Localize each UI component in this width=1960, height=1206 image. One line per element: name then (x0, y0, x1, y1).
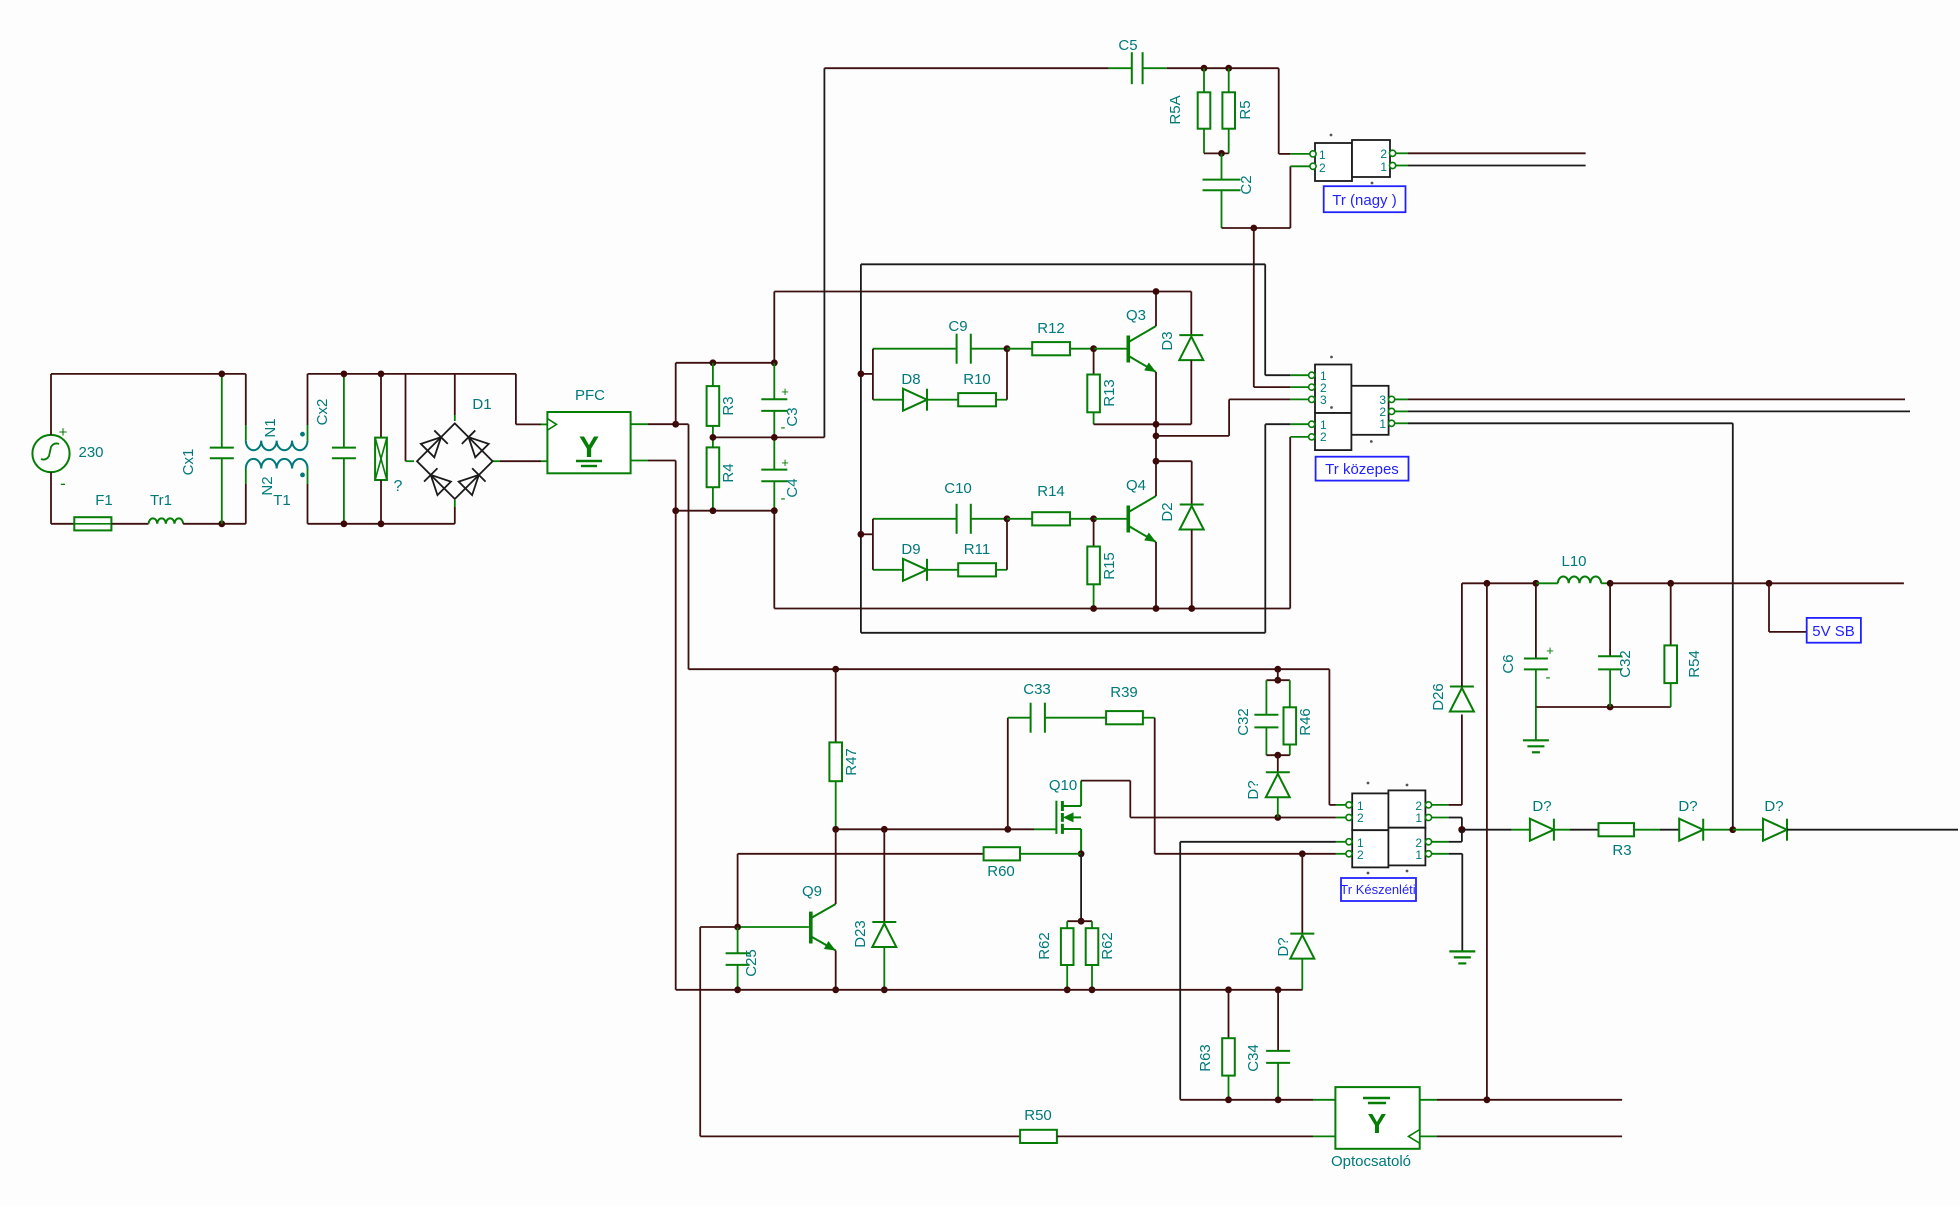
capacitor C4 (773, 437, 775, 469)
junction R47 top (832, 666, 839, 673)
junction Cx1 bottom (218, 520, 225, 527)
wire Q4 collector up (1155, 461, 1157, 496)
resistor R4 (712, 437, 714, 447)
wire HV+ up to bridge rail (773, 292, 775, 363)
capacitor C10 (873, 518, 957, 520)
wire jog to standby feed (676, 423, 689, 425)
ground Tr Keszenleti (1449, 950, 1475, 952)
transistor Q10 MOSFET (1055, 801, 1057, 834)
junction opto supply (1484, 1096, 1491, 1103)
wire HV- to bridge bottom rail (773, 511, 775, 609)
diode D3 (1190, 292, 1192, 336)
junction Q9 emitter (832, 986, 839, 993)
diode D? out3 (1763, 819, 1787, 841)
wire standby bottom rail (676, 989, 1303, 991)
junction C34 top (1275, 986, 1282, 993)
junction C9 R10 R12 (1004, 345, 1011, 352)
wire bottom row (676, 510, 775, 512)
wire Tr kozepes sec1 (1408, 422, 1733, 424)
svg-text:5V SB: 5V SB (1812, 623, 1855, 640)
wire to pin1 lower (1265, 423, 1290, 425)
junction C34 bottom (1275, 1096, 1282, 1103)
svg-text:R5A: R5A (1167, 95, 1184, 124)
wire Q9 collector up (835, 829, 837, 904)
svg-text:R47: R47 (843, 748, 860, 776)
wire HV- down (675, 461, 677, 511)
wire standby rail (689, 668, 1330, 670)
transformer T1 winding N1 (245, 374, 247, 425)
transformer Tr Keszenleti (1352, 793, 1388, 830)
junction D? anode drain row (1274, 814, 1281, 821)
svg-text:F1: F1 (95, 492, 113, 509)
junction R62b bottom (1089, 986, 1096, 993)
resistor R39 (1106, 711, 1143, 724)
inductor Tr1 (149, 518, 184, 523)
svg-text:D?: D? (1764, 798, 1783, 815)
diode D8 (873, 399, 903, 401)
junction C2 row (1250, 225, 1257, 232)
svg-text:+: + (781, 455, 789, 470)
wire rail up to pin2 lower (1289, 437, 1291, 609)
svg-text:D8: D8 (901, 371, 920, 388)
svg-text:R62: R62 (1099, 932, 1116, 960)
svg-text:C33: C33 (1023, 681, 1051, 698)
capacitor C32 out (1609, 583, 1611, 656)
wire bridge bottom rail (774, 608, 1290, 610)
svg-text:2: 2 (1319, 161, 1326, 175)
svg-text:1: 1 (1319, 148, 1326, 162)
svg-text:2: 2 (1380, 147, 1387, 161)
junction Q4 collector (1153, 458, 1160, 465)
ground 5VSB filter (1523, 739, 1549, 741)
resistor R5A (1203, 68, 1205, 92)
svg-text:D9: D9 (901, 541, 920, 558)
resistor R3 (712, 363, 714, 386)
junction C10 R11 R14 (1004, 515, 1011, 522)
svg-text:Tr1: Tr1 (150, 492, 172, 509)
wire to Tr kozepes pin3 (1229, 398, 1290, 400)
svg-text:R60: R60 (987, 863, 1015, 880)
resistor R11 (958, 563, 996, 576)
wire to fuse (51, 523, 74, 525)
inductor L10 (1536, 582, 1558, 584)
wire top row R3 C3 (676, 362, 775, 364)
wire Q3 collector up (1155, 292, 1157, 327)
resistor R10 (958, 393, 996, 406)
svg-text:Tr Készenléti: Tr Készenléti (1340, 882, 1415, 897)
wire PFC out- (631, 460, 648, 462)
wire down to Tr nagy pin1 (1278, 68, 1280, 154)
wire C2 bottom row (1222, 227, 1291, 229)
wire Q3 emitter down to Q4 (1155, 372, 1157, 461)
wire top rail right (308, 373, 516, 375)
capacitor C9 (873, 348, 957, 350)
svg-text:C25: C25 (743, 949, 760, 977)
junction R62 split (1078, 918, 1085, 925)
junction C32 R46 top rail (1274, 666, 1281, 673)
svg-text:+: + (1546, 643, 1554, 658)
transformer Tr kozepes (1315, 365, 1351, 414)
svg-text:C2: C2 (1238, 175, 1255, 194)
wire pin1b to ground (1449, 853, 1463, 855)
resistor R14 (1007, 518, 1032, 520)
wire to D2 top (1156, 460, 1192, 462)
svg-text:Tr (nagy ): Tr (nagy ) (1332, 192, 1396, 209)
wire Tr kozepes sec2 (1408, 410, 1910, 412)
resistor R63 (1228, 990, 1230, 1038)
junction R63 bottom (1225, 1096, 1232, 1103)
wire top C5 row (824, 67, 1108, 69)
junction R14 R15 Q4 base (1090, 515, 1097, 522)
resistor R12 (1007, 348, 1032, 350)
wire pin1 jog (1449, 817, 1462, 819)
junction R63 top (1225, 986, 1232, 993)
junction Q10 source R60 (1078, 850, 1085, 857)
junction PFC+ (672, 421, 679, 428)
wire C5 left vertical (823, 68, 825, 437)
svg-text:C6: C6 (1500, 654, 1517, 673)
wire standby feed down (688, 424, 690, 669)
capacitor C34 (1277, 990, 1279, 1051)
wire up to Tr nagy pin2 (1289, 166, 1291, 228)
svg-text:D?: D? (1532, 798, 1551, 815)
svg-text:C9: C9 (948, 318, 967, 335)
junction C25 bottom (734, 986, 741, 993)
diode D? out1 (1530, 819, 1554, 841)
wire R11 up to C10 node (1006, 519, 1008, 570)
svg-text:D26: D26 (1430, 683, 1447, 711)
wire down to Tr kozepes pin2 (1253, 228, 1255, 387)
resistor R13 (1093, 349, 1095, 375)
svg-text:1: 1 (1415, 848, 1422, 862)
svg-text:Q10: Q10 (1049, 777, 1077, 794)
optocoupler U? (1335, 1087, 1419, 1149)
svg-text:D1: D1 (472, 396, 491, 413)
svg-text:R46: R46 (1297, 708, 1314, 736)
wire jog to drive loop (861, 373, 873, 375)
svg-text:Optocsatoló: Optocsatoló (1331, 1153, 1411, 1170)
svg-text:R5: R5 (1237, 100, 1254, 119)
svg-text:C4: C4 (784, 478, 801, 497)
junction R4 bottom (710, 507, 717, 514)
wire Q10 drain (1081, 780, 1130, 782)
resistor R3 out (1599, 823, 1635, 836)
junction C25 top (734, 924, 741, 931)
svg-text:C32: C32 (1235, 708, 1252, 736)
svg-text:R14: R14 (1037, 483, 1065, 500)
junction R15 bottom (1090, 605, 1097, 612)
junction mid rail (1153, 433, 1160, 440)
svg-text:D?: D? (1678, 798, 1697, 815)
wire C6 C32 R54 bottom row (1536, 706, 1671, 708)
wire rectifier out right (1787, 829, 1958, 831)
wire to Q3 base (1094, 348, 1127, 350)
junction C32 bottom (1607, 704, 1614, 711)
svg-text:2: 2 (1357, 848, 1364, 862)
wire feedback down (699, 927, 701, 1136)
wire R50 to opto (1057, 1135, 1313, 1137)
svg-text:R10: R10 (963, 371, 991, 388)
wire drive loop bottom (861, 632, 1265, 634)
capacitor C2 (1221, 153, 1223, 179)
svg-text:T1: T1 (273, 492, 291, 509)
wire C33 down (1007, 718, 1009, 830)
svg-text:Q3: Q3 (1126, 307, 1146, 324)
label Tr kozepes (1316, 457, 1409, 481)
svg-text:C3: C3 (784, 407, 801, 426)
svg-text:Tr közepes: Tr közepes (1325, 461, 1399, 478)
svg-text:Y: Y (1368, 1108, 1387, 1139)
wires optocoupler right (1420, 1099, 1437, 1101)
junction sec1 rectifier (1729, 826, 1736, 833)
junction C32 top (1607, 580, 1614, 587)
wire R5A R5 join (1204, 152, 1229, 154)
junction C3 top (771, 359, 778, 366)
fuse F1 (74, 517, 111, 530)
svg-text:R3: R3 (1612, 842, 1631, 859)
svg-text:D3: D3 (1159, 331, 1176, 350)
junction R3 top (710, 359, 717, 366)
wire Q9 emitter down (835, 951, 837, 990)
wire fuse to Tr1 (111, 523, 148, 525)
wire pin2 to D26 (1449, 804, 1462, 806)
wire base row left (700, 926, 737, 928)
wire PFC out+ (631, 423, 648, 425)
svg-text:R11: R11 (964, 541, 990, 558)
svg-text:R4: R4 (720, 463, 737, 482)
wire Q4 emitter down (1155, 542, 1157, 609)
junction D2 bottom (1188, 605, 1195, 612)
junction R54 top (1667, 580, 1674, 587)
svg-text:1: 1 (1415, 811, 1422, 825)
wire loop left vert upper (872, 349, 874, 400)
svg-text:Q4: Q4 (1126, 477, 1146, 494)
junction down feed (1484, 580, 1491, 587)
capacitor C32 / resistor R46 pair (1277, 669, 1279, 680)
wire rectifier row (1462, 829, 1512, 831)
junction D? top (1299, 850, 1306, 857)
svg-text:230: 230 (78, 444, 103, 461)
svg-text:R15: R15 (1101, 552, 1118, 580)
wire sec1 down to diode row (1732, 423, 1734, 829)
wire source down (1080, 854, 1082, 921)
wire mid rail (1156, 435, 1229, 437)
wire drive loop to pin1 upper (1264, 264, 1266, 375)
svg-text:R62: R62 (1036, 932, 1053, 960)
capacitor C5 (1109, 67, 1132, 69)
wire R60 down to Q9 base (737, 854, 739, 927)
junction pair top (1274, 677, 1281, 684)
wire 5VSB rail (1462, 582, 1536, 584)
transformer T1 winding N2 (245, 484, 247, 524)
svg-text:-: - (60, 474, 66, 493)
junction drive loop lower (858, 531, 865, 538)
wire R60 row (738, 853, 984, 855)
resistor R54 (1670, 583, 1672, 645)
resistor R15 (1093, 519, 1095, 547)
junction Q3 collector rail (1153, 288, 1160, 295)
junction varistor bottom (378, 520, 385, 527)
junction C3 C4 (771, 434, 778, 441)
label Tr Keszenleti (1341, 878, 1416, 901)
resistor R5 (1228, 68, 1230, 92)
wire C5 to corner (1167, 67, 1279, 69)
svg-text:C34: C34 (1245, 1044, 1262, 1072)
wire TrK pin1 lower row (1180, 841, 1336, 843)
wire pin2b jog (1449, 841, 1462, 843)
svg-text:1: 1 (1379, 417, 1386, 431)
capacitor C3 (773, 363, 775, 400)
svg-text:N1: N1 (262, 418, 279, 437)
wire D26 up to 5VSB rail (1461, 583, 1463, 686)
junction Cx1 top (218, 371, 225, 378)
svg-text:+: + (781, 384, 789, 399)
junction C33 branch (1004, 826, 1011, 833)
junction emitter row (1153, 421, 1160, 428)
junction R12 R13 Q3 base (1090, 345, 1097, 352)
svg-text:R54: R54 (1686, 650, 1703, 678)
label Tr (nagy) (1324, 186, 1406, 212)
junction Cx2 top (341, 371, 348, 378)
svg-text:-: - (1546, 669, 1551, 686)
capacitor Cx1 (221, 374, 223, 448)
diode D? under R46 (1277, 755, 1279, 772)
svg-text:3: 3 (1320, 393, 1327, 407)
wire drain to TrK pin2 upper (1130, 817, 1336, 819)
wire HV+ bridge top rail (774, 291, 1191, 293)
svg-text:C10: C10 (944, 480, 972, 497)
junction C6 top (1533, 580, 1540, 587)
wire rail to PFC in (515, 374, 517, 425)
wire Tr kozepes sec3 (1408, 398, 1905, 400)
wire R13 D3 emitter row (1094, 423, 1192, 425)
svg-text:L10: L10 (1561, 553, 1586, 570)
svg-text:R39: R39 (1110, 684, 1138, 701)
wire HV+ up (675, 363, 677, 424)
svg-text:Y: Y (579, 431, 599, 464)
wire down to optocoupler (1486, 583, 1488, 1100)
svg-text:2: 2 (1357, 811, 1364, 825)
junction varistor top (378, 371, 385, 378)
svg-text:R13: R13 (1101, 379, 1118, 407)
junction R3 R4 (710, 434, 717, 441)
svg-text:Q9: Q9 (802, 883, 822, 900)
diode D23 (883, 829, 885, 922)
svg-text:D?: D? (1275, 937, 1292, 956)
junction HV- row (672, 507, 679, 514)
wire 5VSB rail right (1610, 582, 1904, 584)
wire AC+ up (50, 374, 52, 435)
PFC converter block (547, 412, 630, 473)
junction drive loop upper (858, 371, 865, 378)
transistor Q3 (1127, 336, 1131, 363)
wire mid row (713, 436, 825, 438)
wire R10 up to C9 node (1006, 349, 1008, 400)
wire drive loop left (860, 264, 862, 633)
svg-text:Cx1: Cx1 (180, 449, 197, 476)
svg-text:C5: C5 (1118, 37, 1137, 54)
wire to TrK pin2 lower (1155, 853, 1336, 855)
svg-text:R63: R63 (1197, 1044, 1214, 1072)
svg-text:1: 1 (1380, 160, 1387, 174)
svg-text:PFC: PFC (575, 387, 605, 404)
wire down to opto row (1179, 842, 1181, 1100)
svg-text:2: 2 (1320, 430, 1327, 444)
wire AC- down (50, 472, 52, 524)
svg-text:R12: R12 (1037, 320, 1065, 337)
capacitor Cx2 (343, 374, 345, 448)
junction rectifier node (1458, 826, 1465, 833)
transistor Q4 (1127, 506, 1131, 533)
varistor ? (380, 374, 382, 438)
junction C2 top (1218, 150, 1225, 157)
junction D23 top (881, 826, 888, 833)
junction 5VSB tap (1766, 580, 1773, 587)
wire R39 down (1154, 718, 1156, 854)
wire Tr nagy sec 2 (1408, 152, 1586, 154)
wire rail down to TrK pin1 (1328, 669, 1330, 805)
svg-text:D2: D2 (1159, 502, 1176, 521)
wire loop left vert lower (872, 519, 874, 570)
svg-text:R3: R3 (720, 396, 737, 415)
wire to Q4 base (1094, 518, 1127, 520)
junction R5 top (1225, 65, 1232, 72)
svg-text:+: + (59, 424, 68, 441)
svg-text:Cx2: Cx2 (314, 399, 331, 426)
wire bottom rail (183, 523, 246, 525)
junction R47 Q9 gate row (832, 826, 839, 833)
wire jog to drive loop lower (861, 533, 873, 535)
svg-text:D23: D23 (852, 920, 869, 948)
wire bottom rail right (308, 523, 455, 525)
wire gate row (836, 828, 1034, 830)
junction Q4 emitter rail (1153, 605, 1160, 612)
junction C4 bottom (771, 507, 778, 514)
bridge rectifier D1 (405, 374, 407, 461)
svg-text:D?: D? (1245, 780, 1262, 799)
junction D23 bottom (881, 986, 888, 993)
diode D? out2 (1679, 819, 1703, 841)
wire drive loop top (861, 263, 1265, 265)
diode D9 (873, 569, 903, 571)
label 5VSB (1768, 583, 1770, 632)
AC source V1 230V (32, 435, 69, 472)
svg-text:?: ? (394, 478, 403, 495)
junction pair bottom (1274, 752, 1281, 759)
wire top rail left (51, 373, 246, 375)
svg-text:C32: C32 (1617, 650, 1634, 678)
wire HV- long down (675, 511, 677, 990)
junction R62a bottom (1064, 986, 1071, 993)
wire Q9 base (738, 926, 809, 928)
wire mid rail up (1228, 399, 1230, 436)
wire opto row (1180, 1099, 1313, 1101)
junction R5A top (1201, 65, 1208, 72)
wire drive loop right up (1264, 424, 1266, 633)
wire R50 row (700, 1135, 1020, 1137)
resistor R62 b (1091, 921, 1093, 928)
svg-text:R50: R50 (1024, 1107, 1052, 1124)
wire to ground (1535, 707, 1537, 740)
capacitor C6 (1535, 583, 1537, 658)
transformer Tr (nagy) (1315, 143, 1352, 181)
wire Tr nagy sec 1 (1408, 165, 1586, 167)
junction Cx2 bottom (341, 520, 348, 527)
